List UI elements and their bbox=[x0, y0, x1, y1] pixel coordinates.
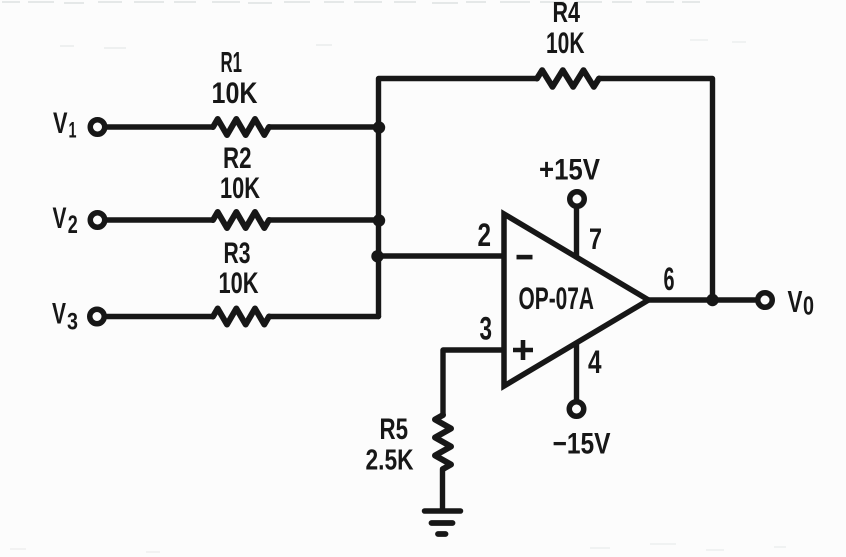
wire bus to op-amp pin 2 bbox=[379, 253, 504, 258]
op-amp U1 triangle bbox=[504, 214, 649, 386]
svg-text:2: 2 bbox=[68, 211, 78, 239]
resistor R4 body bbox=[537, 70, 599, 87]
wire op-amp output to V0 terminal bbox=[649, 297, 756, 302]
wire op-amp pin 4 to -15V terminal bbox=[574, 343, 579, 400]
svg-text:3: 3 bbox=[67, 309, 78, 336]
wire R4 right lead to feedback corner bbox=[599, 79, 713, 301]
svg-text:6: 6 bbox=[664, 261, 675, 297]
svg-text:V: V bbox=[53, 107, 68, 140]
node junction V2 / bus bbox=[373, 214, 385, 226]
svg-text:V: V bbox=[788, 284, 803, 319]
svg-text:0: 0 bbox=[803, 293, 814, 321]
terminal V2 circle bbox=[90, 213, 105, 228]
svg-text:10K: 10K bbox=[220, 172, 260, 205]
svg-text:R2: R2 bbox=[223, 142, 252, 175]
wire R5 to ground bbox=[440, 469, 445, 509]
svg-text:2: 2 bbox=[478, 217, 492, 253]
-15V supply terminal circle bbox=[569, 402, 584, 417]
svg-text:4: 4 bbox=[588, 344, 602, 380]
svg-text:7: 7 bbox=[589, 223, 602, 256]
terminal V3 circle bbox=[90, 309, 105, 324]
resistor R3 body bbox=[213, 309, 269, 325]
svg-text:−15V: −15V bbox=[553, 428, 611, 461]
wire op-amp pin 7 to +15V terminal bbox=[574, 208, 579, 257]
+15V supply terminal circle bbox=[570, 192, 585, 207]
svg-text:OP-07A: OP-07A bbox=[519, 280, 595, 316]
terminal V0 circle bbox=[758, 293, 773, 308]
wire R3 to summing bus bbox=[269, 314, 379, 319]
terminal V1 circle bbox=[90, 120, 105, 135]
ground symbol bbox=[425, 511, 461, 534]
svg-text:R4: R4 bbox=[553, 0, 581, 29]
resistor R2 body bbox=[213, 212, 269, 228]
svg-text:1: 1 bbox=[69, 118, 77, 143]
node junction output / feedback bbox=[706, 294, 718, 306]
svg-text:V: V bbox=[52, 298, 66, 331]
svg-text:10K: 10K bbox=[219, 267, 260, 300]
wire op-amp pin 3 to R5 bbox=[443, 350, 503, 415]
node junction bus / pin 2 bbox=[371, 250, 383, 262]
svg-text:2.5K: 2.5K bbox=[366, 445, 414, 477]
svg-text:R5: R5 bbox=[380, 413, 409, 446]
svg-text:V: V bbox=[53, 202, 67, 235]
svg-text:R3: R3 bbox=[224, 237, 251, 270]
op-amp U1 plus sign at non-inverting input bbox=[513, 340, 533, 360]
svg-text:10K: 10K bbox=[212, 77, 259, 110]
svg-text:10K: 10K bbox=[546, 27, 585, 60]
wire summing bus vertical bbox=[379, 79, 538, 317]
wire R1 to summing bus bbox=[269, 124, 379, 129]
svg-text:R1: R1 bbox=[221, 47, 243, 79]
svg-text:3: 3 bbox=[480, 311, 493, 347]
resistor R1 body bbox=[213, 119, 269, 135]
wire V3 terminal to R3 bbox=[107, 314, 213, 319]
wire V1 terminal to R1 bbox=[107, 124, 213, 129]
wire V2 terminal to R2 bbox=[107, 217, 213, 222]
wire R2 to summing bus bbox=[269, 217, 379, 222]
op-amp U1 minus sign at inverting input bbox=[517, 255, 533, 260]
node junction V1 / bus bbox=[373, 121, 385, 133]
resistor R5 body bbox=[435, 415, 451, 469]
svg-text:+15V: +15V bbox=[539, 154, 600, 187]
